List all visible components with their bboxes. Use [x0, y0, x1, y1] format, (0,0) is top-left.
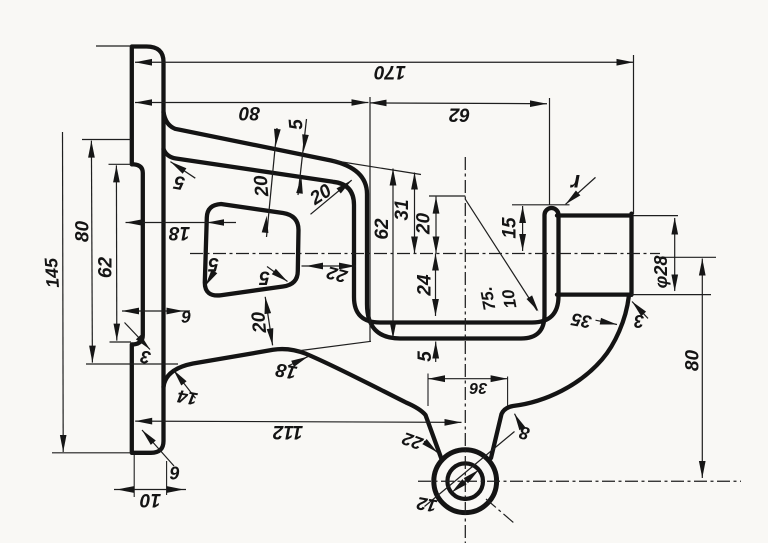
dimension 31 line	[414, 173, 416, 254]
dimension 62 top line	[370, 102, 548, 105]
extension x=166.6 below flange	[166, 461, 168, 495]
svg-text:3: 3	[634, 311, 644, 331]
radius 5 hole BL arrow	[205, 270, 217, 286]
dimension 145 bottom arrow	[60, 435, 67, 452]
dimension 5 wall label	[286, 118, 308, 131]
radius 3 step arrow	[136, 335, 150, 350]
dimension 20 right line	[435, 197, 437, 254]
dimension 170 line	[135, 61, 634, 63]
dimension 62 top label	[449, 104, 471, 125]
dimension 9 left arrow	[122, 308, 139, 315]
dimension 31 bottom arrow	[411, 237, 418, 254]
dimension phi28 bottom arrow	[671, 275, 678, 292]
leader 75-10 arrow	[527, 295, 539, 311]
neck left extension x=428 for 36-dim	[427, 374, 429, 407]
svg-text:170: 170	[374, 61, 406, 82]
svg-text:75.: 75.	[477, 285, 500, 312]
boss bottom extension to phi28 and 80 lines	[632, 294, 712, 296]
dimension 12 diagonal line	[425, 432, 515, 507]
horizontal centerline through hole, slot and shaft	[190, 253, 660, 255]
radius r cap leader	[566, 177, 596, 204]
svg-text:6: 6	[169, 463, 180, 483]
dimension 31 top arrow	[411, 173, 418, 190]
radius r cap arrow	[566, 191, 581, 205]
svg-text:6: 6	[181, 307, 192, 326]
dimension 20 below hole up arrow	[265, 297, 272, 314]
dimension 112 left arrow	[135, 418, 152, 425]
dimension 62 left label	[96, 257, 117, 279]
dimension 20 right label	[414, 213, 435, 236]
dimension 20 lower arrow	[262, 216, 269, 233]
dimension 9 label	[181, 307, 192, 326]
upper step extension line y=164.3	[109, 163, 132, 165]
svg-text:62: 62	[449, 104, 471, 125]
svg-text:20: 20	[251, 174, 274, 198]
radius 18 arrow	[291, 357, 308, 367]
extension line y=139.5 left of flange	[82, 139, 131, 141]
svg-text:5: 5	[259, 267, 270, 288]
dimension 62 right bottom arrow	[390, 322, 397, 339]
radius 22 neck label	[400, 428, 427, 454]
svg-text:62: 62	[96, 257, 117, 279]
diagonal dash-dot axis lower-right of bottom boss	[486, 499, 514, 523]
svg-text:10: 10	[498, 288, 520, 310]
dimension 20 right bottom arrow	[433, 237, 440, 254]
dimension 170 label	[374, 61, 406, 82]
svg-text:5: 5	[415, 351, 436, 362]
bottom boss outer circle	[434, 450, 497, 513]
boss top edge	[557, 213, 632, 217]
dimension 170 right arrow	[617, 59, 634, 66]
radius 8 neck arrow	[515, 414, 526, 431]
dimension 20 right top arrow	[433, 197, 440, 214]
dimension 22 left arrow	[306, 263, 323, 270]
svg-text:18: 18	[274, 358, 299, 382]
radius 5 fillet label	[172, 171, 186, 194]
horizontal centerline of bottom boss	[418, 480, 741, 482]
rounded rectangular hole in web	[205, 204, 299, 295]
radius 8 neck label	[518, 422, 531, 443]
web lower edge with R14 fillet and R18 bend	[164, 349, 442, 459]
dimension 62 top right arrow	[530, 100, 547, 107]
dimension 10 line	[114, 489, 186, 491]
vertical centerline of bottom boss	[464, 157, 466, 543]
dimension 80 right top arrow	[699, 259, 706, 276]
svg-text:31: 31	[392, 199, 413, 220]
radius 5 fillet arrow	[170, 162, 186, 174]
dimension 22 line	[302, 265, 357, 267]
dimension 80 left bottom arrow	[89, 346, 96, 363]
bottom boss inner circle (hole)	[447, 463, 483, 499]
dimension 20 diagonal line	[267, 128, 278, 237]
lower step extension line y=342	[110, 341, 132, 343]
svg-text:80: 80	[683, 350, 704, 372]
radius 22 neck arrow	[422, 439, 437, 453]
dimension 112 line	[135, 421, 461, 422]
dimension 12 label	[415, 493, 438, 516]
dimension 62 top left arrow	[370, 100, 387, 107]
dimension 20 below hole label	[248, 310, 271, 334]
dimension 12 upper arrow	[464, 470, 479, 484]
radius 14 leader	[174, 370, 196, 398]
flange outline (left mounting plate)	[132, 47, 164, 453]
dimension 62 right label	[372, 218, 393, 240]
dimension 5 wall diagonal line	[298, 119, 307, 195]
svg-text:10: 10	[140, 489, 162, 510]
svg-text:20: 20	[414, 213, 435, 236]
svg-text:80: 80	[73, 221, 94, 243]
dimension 18 line	[126, 222, 237, 224]
dimension 36 label	[470, 379, 488, 396]
dimension 24 top arrow	[432, 254, 439, 271]
extension line y=364 left	[86, 363, 178, 365]
dimension 62 right top arrow	[390, 169, 397, 186]
dimension 62 left top arrow	[113, 165, 120, 182]
radius 5 hole BR label	[259, 267, 270, 288]
dimension 170 left arrow	[135, 59, 152, 66]
dimension 15 label	[500, 217, 521, 239]
dimension 80 right bottom arrow	[699, 461, 706, 478]
dimension 80 right label	[683, 350, 704, 372]
radius 5 hole BR leader	[267, 267, 288, 282]
radius 35 arrow	[600, 318, 617, 325]
dimension 20 upper arrow	[274, 129, 281, 146]
dimension 80 right line	[701, 259, 703, 479]
radius 6 corner label	[169, 463, 180, 483]
dimension 62 left line	[115, 165, 117, 340]
dimension 80 left label	[73, 221, 94, 243]
radius 18 leader	[288, 357, 308, 366]
radius 8 neck leader	[515, 414, 523, 428]
svg-text:12: 12	[415, 493, 438, 516]
label 10 neck	[498, 288, 520, 310]
dimension 62 left bottom arrow	[114, 324, 121, 341]
radius 20 corner arrow	[337, 180, 352, 193]
dimension phi28 line	[674, 218, 676, 291]
dimension 36 line	[428, 378, 508, 380]
dimension 18 right arrow	[207, 219, 224, 226]
dimension 5 wall upper arrow	[302, 134, 309, 151]
boss bottom edge	[557, 292, 630, 296]
radius 3 boss label	[634, 311, 644, 331]
dimension 24 line	[435, 254, 437, 317]
radius 5 hole BL leader	[205, 273, 213, 286]
dimension 5 bottom leg label	[415, 351, 436, 362]
radius 35 label	[569, 309, 593, 332]
svg-text:r: r	[570, 170, 580, 196]
radius 5 fillet leader	[170, 162, 195, 179]
dimension 31 label	[392, 199, 413, 220]
dimension 22 label	[325, 262, 350, 287]
dimension 5 bottom leg arrow	[432, 342, 439, 359]
cap-top extension line y=205	[512, 204, 570, 206]
radius 3 step label	[139, 346, 152, 367]
neck right edge and large sweep curve to boss	[491, 297, 629, 459]
radius r label	[570, 170, 580, 196]
radius 3 boss arrow	[632, 302, 646, 317]
dimension 80 left top arrow	[88, 141, 95, 158]
dimension 9 right arrow	[167, 308, 184, 315]
radius 3 step leader	[125, 323, 151, 350]
boss top extension to phi28 line	[634, 215, 679, 217]
radius 5 hole BL label	[208, 253, 219, 274]
upper arm / C-shaped body outer+inner contour	[164, 112, 559, 339]
radius 14 label	[176, 386, 199, 409]
svg-text:20: 20	[248, 310, 271, 334]
dimension 5 bottom leg line	[435, 342, 437, 363]
dimension 80 top left arrow	[135, 99, 152, 106]
dimension 20 below hole line	[265, 297, 272, 346]
dimension 24 bottom arrow	[432, 299, 439, 316]
dimension 80 top line	[135, 102, 369, 104]
dimension 10 label	[140, 489, 162, 510]
dimension 9 line	[122, 310, 190, 312]
svg-text:24: 24	[415, 274, 436, 297]
dimension 18 left arrow	[126, 219, 143, 226]
extension x=134 below flange	[133, 455, 135, 497]
radius 18 label	[274, 358, 299, 382]
label 75	[477, 285, 500, 312]
dimension 80 top label	[239, 102, 261, 123]
svg-text:15: 15	[500, 217, 521, 239]
dimension 20 diagonal label	[251, 174, 274, 198]
dimension 145 label	[41, 256, 63, 288]
dimension 80 left line	[91, 141, 92, 363]
svg-text:36: 36	[470, 379, 488, 396]
extension line x=549.5 (62 right end)	[549, 98, 551, 205]
dimension 10 left arrow	[117, 486, 134, 493]
radius 6 corner leader	[142, 430, 174, 466]
flange bottom extension line	[52, 452, 131, 454]
dimension 18 label	[169, 222, 191, 243]
extension line x=633.5 (170 right end, boss right)	[633, 55, 635, 214]
radius 35 leader	[596, 320, 618, 324]
boss right edge	[629, 214, 633, 295]
radius 22 neck leader	[424, 441, 437, 452]
svg-text:112: 112	[272, 421, 303, 442]
dimension 15 bottom arrow	[519, 234, 526, 251]
dimension 12 lower arrow	[452, 479, 467, 493]
svg-text:18: 18	[169, 222, 191, 243]
leader line 75-10 diagonal	[465, 199, 537, 310]
radius 14 arrow	[174, 370, 187, 386]
dimension phi28 label	[651, 256, 671, 289]
extension line y=196 for 20-dim	[429, 195, 465, 197]
radius 20 corner leader	[311, 180, 352, 214]
dimension 112 right arrow	[445, 419, 462, 426]
dimension 36 left arrow	[428, 375, 445, 382]
svg-text:62: 62	[372, 218, 393, 240]
dimension 24 label	[415, 274, 436, 297]
extension line top of flange	[96, 45, 131, 47]
radius 3 boss leader	[632, 302, 648, 319]
dimension 112 label	[272, 421, 303, 442]
dimension 36 right arrow	[491, 375, 508, 382]
extension line x=370 (right of C outer wall)	[369, 97, 371, 342]
dimension 15 line	[522, 206, 524, 251]
svg-text:φ28: φ28	[651, 256, 671, 289]
radius 6 corner arrow	[142, 430, 156, 445]
dimension 62 right line	[392, 169, 394, 339]
svg-text:14: 14	[176, 386, 199, 409]
dimension 15 top arrow	[519, 206, 526, 223]
dimension 10 right arrow	[167, 486, 184, 493]
neck right extension x=507.6 for 36-dim	[507, 377, 509, 407]
dimension 145 line	[62, 132, 65, 452]
svg-text:5: 5	[208, 253, 219, 274]
dimension 5 wall lower arrow	[296, 177, 303, 194]
sloped thin extension from web bend to x=370	[297, 341, 371, 351]
dimension 80 top right arrow	[352, 99, 369, 106]
dimension 20 below hole down arrow	[267, 328, 274, 345]
sloped extension line right of outer arm corner	[333, 161, 421, 175]
dimension phi28 top arrow	[671, 218, 678, 235]
radius 20 label	[306, 180, 336, 210]
svg-text:80: 80	[239, 102, 261, 123]
svg-text:145: 145	[41, 256, 63, 288]
dimension 22 right arrow	[339, 263, 356, 270]
centerline extension y=257 for 80-dim	[657, 256, 716, 258]
radius 5 hole BR arrow	[272, 269, 288, 282]
